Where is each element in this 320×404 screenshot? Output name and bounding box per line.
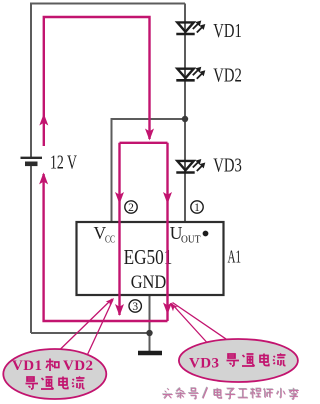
watermark pink copy (163, 388, 299, 400)
svg-text:A1: A1 (228, 247, 242, 267)
svg-text:12 V: 12 V (50, 153, 77, 174)
svg-text:VD1: VD1 (213, 20, 242, 42)
svg-text:VD3: VD3 (213, 154, 242, 176)
wire: outer top (battery + to LED chain) (31, 4, 185, 158)
wire: junction between VD2 and VD3 to Vcc pin (112, 119, 186, 222)
current splitter top bar (120, 142, 168, 144)
current arrow down at pin 3 left (115, 304, 124, 316)
wire: left lower (battery - down) (30, 165, 32, 333)
callout arrow right (167, 301, 177, 312)
wire: bottom return to ground node (31, 332, 150, 334)
callout bubble VD3 (179, 339, 298, 382)
callout arrow left (106, 296, 117, 307)
current path: bottom return to battery - (44, 174, 168, 321)
LED VD3 (176, 159, 205, 173)
svg-text:VD1: VD1 (12, 358, 42, 374)
watermark gray emboss copy (162, 387, 298, 399)
svg-text:EG501: EG501 (124, 245, 173, 269)
current arrow down into splitter (145, 129, 154, 141)
battery GB 12V: long positive plate (21, 157, 43, 159)
LED VD1 (176, 21, 205, 35)
pin 2 circled number (125, 201, 137, 213)
bubble text line2: 导通电流 (26, 377, 85, 390)
op-amp/IC A1 box EG501 (77, 222, 224, 295)
current arrow down at pin 2 (115, 192, 124, 204)
wire: GND pin 3 stub down to ground (149, 295, 151, 351)
svg-text:CC: CC (105, 235, 115, 246)
current arrow down at pin 3 right (163, 303, 172, 315)
wire: main right vertical through LED chain (184, 4, 186, 223)
Uout dot (203, 231, 209, 237)
current path: left leg through pin 2 (118, 143, 120, 315)
svg-text:VD2: VD2 (213, 64, 242, 86)
pin 1 circled number (191, 201, 203, 213)
current arrow up into battery - (39, 172, 48, 184)
svg-text:VD2: VD2 (63, 358, 93, 374)
current path: battery + feed wire (44, 17, 150, 146)
current arrow up above battery (39, 114, 48, 126)
svg-text:OUT: OUT (181, 235, 201, 246)
battery GB 12V: short negative plate (25, 162, 38, 167)
LED VD2 (176, 67, 205, 81)
svg-text:3: 3 (132, 301, 138, 313)
svg-text:VD3: VD3 (189, 356, 219, 372)
svg-text:GND: GND (131, 273, 167, 293)
node: junction dot at ground net (146, 330, 152, 336)
pin 3 circled number (129, 300, 141, 312)
svg-text:2: 2 (128, 202, 134, 214)
node: junction dot at VD2/VD3 tap (182, 116, 188, 122)
callout tail left (59, 299, 113, 355)
callout tail right (172, 303, 228, 343)
svg-text:1: 1 (194, 202, 200, 214)
callout bubble VD1/VD2 (3, 349, 106, 399)
ground (138, 351, 162, 356)
current arrow down mid right leg (163, 192, 172, 204)
current path: right leg through IC (166, 143, 168, 321)
